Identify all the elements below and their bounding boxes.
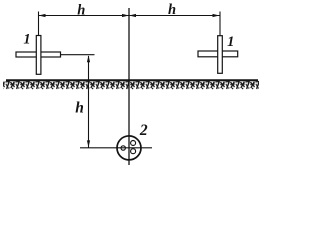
svg-text:2: 2: [139, 122, 148, 139]
svg-text:1: 1: [227, 34, 234, 50]
svg-text:h: h: [77, 2, 85, 18]
svg-text:1: 1: [23, 32, 30, 48]
svg-text:h: h: [168, 2, 176, 18]
svg-text:h: h: [75, 100, 84, 117]
